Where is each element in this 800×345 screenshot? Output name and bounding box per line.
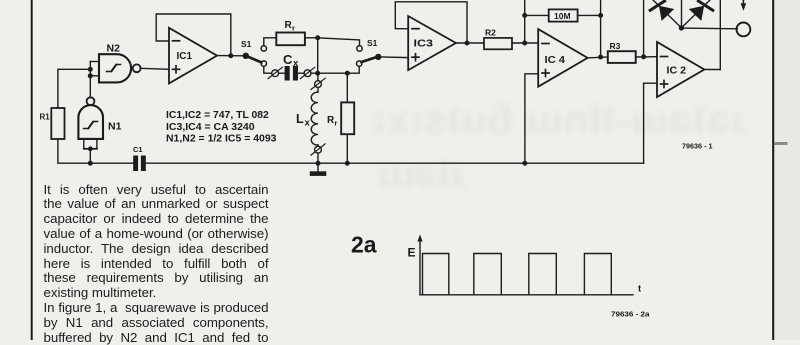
wire to 10M xyxy=(525,14,549,16)
node IC1 output xyxy=(229,54,233,58)
wire S1 upper to Rr xyxy=(264,38,277,46)
svg-text:10M: 10M xyxy=(554,11,571,21)
resistor R3 xyxy=(608,41,636,63)
wire R2 to IC4 - input xyxy=(512,42,538,44)
NAND gate N2 xyxy=(99,43,141,83)
svg-text:79636 - 1: 79636 - 1 xyxy=(682,142,713,151)
squarewave trace xyxy=(423,254,612,295)
meter arrow (cut at top) xyxy=(741,0,747,11)
wire IC2 + input xyxy=(644,83,657,163)
svg-text:S1: S1 xyxy=(367,38,378,48)
wire N2 output to IC1 + input xyxy=(140,68,169,69)
wire 10M to output rail xyxy=(578,14,601,16)
svg-text:L: L xyxy=(296,112,304,126)
node Rr top xyxy=(346,71,350,75)
node IC2 - input xyxy=(642,55,646,59)
svg-text:IC 2: IC 2 xyxy=(667,65,687,77)
resistor R1 xyxy=(40,108,65,139)
LED D2 (right) xyxy=(681,0,712,28)
wire IC4 + input xyxy=(525,74,538,163)
print dash on right page edge xyxy=(776,142,786,145)
node IC3 output xyxy=(465,41,469,45)
node 10M left xyxy=(523,14,527,18)
IC type annotation xyxy=(166,109,277,144)
node Lx/ground on bus xyxy=(316,161,320,165)
wire Lx to bus xyxy=(317,153,319,163)
op-amp IC1 xyxy=(169,28,217,84)
ground bus right of C1 xyxy=(146,162,644,164)
ground xyxy=(310,163,327,176)
svg-text:IC 4: IC 4 xyxy=(545,54,566,66)
svg-text:IC3,IC4 = CA 3240: IC3,IC4 = CA 3240 xyxy=(166,121,255,133)
IC1 feedback loop xyxy=(156,14,231,56)
svg-text:R3: R3 xyxy=(610,41,621,51)
resistor R2 xyxy=(484,28,512,50)
wire Cx to riser xyxy=(311,72,347,74)
svg-text:x: x xyxy=(293,58,299,69)
terminal Lx bottom xyxy=(311,144,325,155)
inductor Lx xyxy=(296,88,318,146)
left page rule xyxy=(31,0,33,340)
waveform X axis xyxy=(420,284,642,295)
wire node to switch S1 right upper xyxy=(318,38,360,46)
svg-text:N1,N2 = 1/2 IC5 = 4093: N1,N2 = 1/2 IC5 = 4093 xyxy=(166,132,277,144)
resistor Rr (reference, vertical) xyxy=(327,73,354,163)
node Rr right xyxy=(316,36,320,40)
waveform Y axis xyxy=(408,235,423,295)
LED D1 (left) xyxy=(650,0,681,28)
svg-text:t: t xyxy=(638,284,642,295)
svg-text:N1: N1 xyxy=(108,121,122,133)
svg-text:R2: R2 xyxy=(485,28,496,38)
node at R1/N2 junction xyxy=(89,68,93,72)
terminal Lx top xyxy=(311,73,325,89)
svg-text:x: x xyxy=(305,118,311,129)
node 10M right xyxy=(599,14,603,18)
resistor Rr (reference, horizontal) xyxy=(276,20,305,45)
wire N2 input tie vertical xyxy=(89,62,91,98)
svg-text:S1: S1 xyxy=(241,39,252,49)
wire S1 pole to IC3 + input xyxy=(378,56,408,59)
resistor 10M xyxy=(549,9,578,21)
show-through ghost text line 1 xyxy=(373,100,747,141)
wire N2 input upper xyxy=(90,61,99,63)
show-through ghost text line 2 xyxy=(373,153,467,192)
article body text column xyxy=(44,183,269,345)
wire R1 bottom to ground bus xyxy=(58,139,133,163)
node Rr bottom on bus xyxy=(346,161,350,165)
node LED junction xyxy=(679,26,683,30)
wire IC2 output to terminal rail xyxy=(704,69,720,71)
NAND gate N1 xyxy=(78,97,121,139)
wire S1 lower to Cx xyxy=(264,66,272,73)
wire IC4 output xyxy=(588,56,608,59)
op-amp IC4 xyxy=(538,29,587,87)
terminal Cx left xyxy=(268,67,282,78)
LED rail (cut at top) xyxy=(643,0,645,57)
right page edge strip xyxy=(774,0,800,340)
svg-text:IC1: IC1 xyxy=(177,50,193,62)
wire S1 lower to Cx line xyxy=(347,66,359,73)
svg-text:N2: N2 xyxy=(107,43,121,55)
svg-text:E: E xyxy=(408,246,416,260)
wire LED node to meter terminal xyxy=(681,27,737,30)
N1 input stubs and tie bar xyxy=(84,139,97,151)
capacitor C1 xyxy=(133,145,146,171)
capacitor Cx xyxy=(279,52,300,81)
node N1 on bus xyxy=(89,161,93,165)
wire IC1 output xyxy=(217,55,244,57)
node IC4 feedback/input xyxy=(523,41,527,45)
right page rule xyxy=(772,0,774,340)
svg-text:C1: C1 xyxy=(133,145,143,154)
wire LED node rail up (cut at top) xyxy=(681,0,683,28)
riser Rr-node to Cx-node xyxy=(317,38,319,73)
svg-text:IC3: IC3 xyxy=(414,37,434,49)
terminal rail vertical (cut at top) xyxy=(719,0,721,70)
svg-text:79636 - 2a: 79636 - 2a xyxy=(611,310,651,319)
wire IC3 output to R2 xyxy=(456,42,484,44)
node at N2 lower input xyxy=(89,74,93,78)
IC4 feedback rail left (cut at top) xyxy=(524,0,526,43)
op-amp IC2 xyxy=(657,42,704,97)
svg-text:r: r xyxy=(292,24,295,33)
wire R1 top to N2 input junction xyxy=(58,69,90,108)
wire N1 inputs to bus xyxy=(89,149,91,163)
svg-text:IC1,IC2 = 747, TL 082: IC1,IC2 = 747, TL 082 xyxy=(166,109,269,121)
svg-text:C: C xyxy=(283,52,293,67)
wire R3 to IC2 - input xyxy=(636,56,657,58)
node riser/Cx xyxy=(316,71,320,75)
switch S1 (left section) xyxy=(241,39,266,66)
svg-text:2a: 2a xyxy=(351,232,377,258)
node IC4 output xyxy=(599,55,603,59)
svg-text:r: r xyxy=(335,119,338,128)
switch S1 (right section) xyxy=(357,38,381,66)
svg-text:R1: R1 xyxy=(40,113,51,122)
meter terminal circle xyxy=(737,23,751,37)
op-amp IC3 xyxy=(408,16,456,70)
IC3 feedback loop xyxy=(395,2,467,43)
terminal Cx right xyxy=(298,67,315,78)
wire Rr to riser node xyxy=(305,37,318,39)
IC4 output rail (cut at top) xyxy=(600,0,602,57)
wire N2 input lower xyxy=(90,75,99,77)
node IC4 + on bus xyxy=(523,161,527,165)
